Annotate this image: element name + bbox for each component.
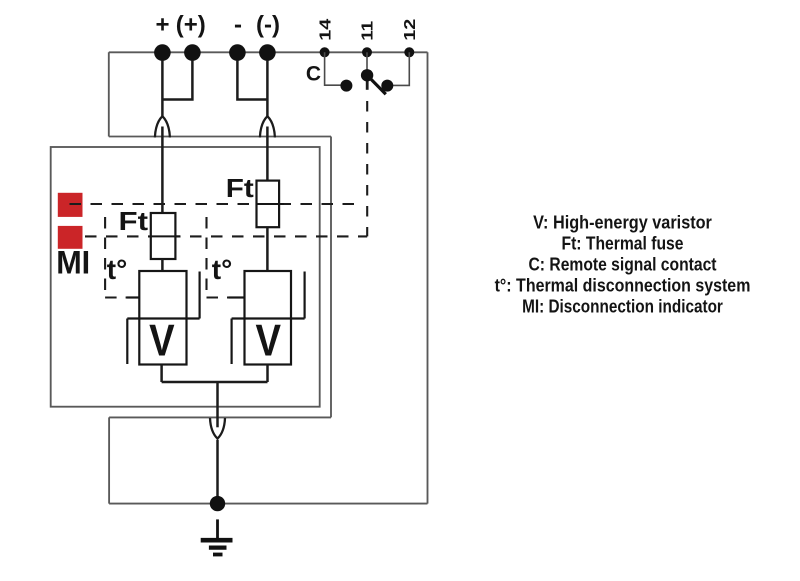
fuse Ft2 (257, 181, 285, 228)
svg-text:-: - (234, 11, 242, 38)
wire fuse2 to disconnector (266, 227, 269, 271)
svg-text:14: 14 (317, 19, 334, 41)
varistor assembly V1 (127, 271, 199, 365)
contact blade (367, 75, 386, 94)
wire common bus (162, 381, 268, 384)
SPD module enclosure box (51, 147, 320, 407)
svg-text:MI: MI (56, 245, 90, 281)
wire right branch to fuse (266, 127, 269, 181)
svg-text:+: + (155, 11, 169, 38)
svg-text:t°: t° (107, 254, 128, 285)
terminal dot plus (154, 44, 171, 61)
svg-text:11: 11 (360, 21, 377, 41)
indicator MI square 2 (58, 226, 83, 249)
varistor assembly V2 (232, 271, 305, 365)
wire left branch to fuse (161, 127, 164, 214)
thermal disconnector t1 dashed box (105, 217, 128, 298)
terminal dot minus2 (259, 44, 276, 61)
svg-text:Ft: Thermal fuse: Ft: Thermal fuse (562, 234, 684, 254)
wire left upper drop (108, 52, 110, 136)
svg-text:(-): (-) (256, 11, 280, 38)
plug contact right (260, 116, 275, 137)
wire terminal 14 to contact (325, 52, 342, 85)
dashed link upper MI to C (70, 203, 360, 205)
plug contact left (155, 116, 170, 137)
wire right branch upper (266, 60, 269, 117)
svg-text:12: 12 (402, 19, 419, 41)
svg-text:Ft: Ft (119, 206, 149, 236)
ground node (210, 496, 225, 511)
svg-text:V: V (149, 316, 175, 365)
svg-text:t°: Thermal disconnection syst: t°: Thermal disconnection system (495, 276, 751, 296)
indicator MI square 1 (58, 193, 83, 217)
svg-text:Ft: Ft (226, 173, 254, 203)
dashed link C vertical (366, 75, 369, 90)
ground symbol (201, 519, 233, 554)
svg-text:C: Remote signal contact: C: Remote signal contact (529, 254, 717, 274)
wire base lower cross line (109, 416, 331, 418)
terminal dot minus (229, 44, 246, 61)
wire bottom earth rail (109, 503, 427, 505)
wire left branch upper (161, 60, 164, 117)
terminal dot 14 (320, 47, 330, 57)
wire base right vertical (330, 137, 332, 418)
wire fuse1 to disconnector (161, 259, 164, 271)
wire V2 down (266, 365, 269, 383)
svg-text:MI: Disconnection indicator: MI: Disconnection indicator (522, 297, 723, 317)
wire left lower drop (108, 417, 110, 503)
fuse Ft1 (151, 213, 180, 259)
contact pivot dot (361, 69, 373, 81)
svg-text:(+): (+) (176, 11, 206, 38)
terminal dot 11 (362, 47, 372, 57)
disconnector actuator right (229, 296, 245, 298)
wire right side (427, 52, 429, 503)
contact dot 14 (340, 80, 352, 92)
svg-text:V: High-energy varistor: V: High-energy varistor (533, 212, 712, 232)
svg-text:V: V (255, 316, 281, 365)
wire plus jumper (162, 60, 192, 100)
svg-text:C: C (306, 63, 321, 86)
wire minus jumper (237, 60, 267, 100)
terminal dot 12 (404, 47, 414, 57)
wire terminal 11 to pivot (366, 52, 368, 70)
wire top bus (109, 51, 428, 53)
wire common down (216, 382, 219, 427)
wire base cross line (109, 136, 331, 138)
disconnector actuator left (127, 296, 140, 298)
wire terminal 12 to contact (392, 52, 409, 85)
wire V1 down (160, 365, 163, 383)
wire to ground node (216, 440, 219, 497)
svg-text:t°: t° (212, 254, 233, 285)
contact dot 12 (381, 80, 393, 92)
terminal dot plus2 (184, 44, 201, 61)
dashed link lower MI to C (85, 235, 367, 237)
thermal disconnector t2 dashed box (207, 217, 230, 298)
plug contact bottom (210, 418, 225, 439)
